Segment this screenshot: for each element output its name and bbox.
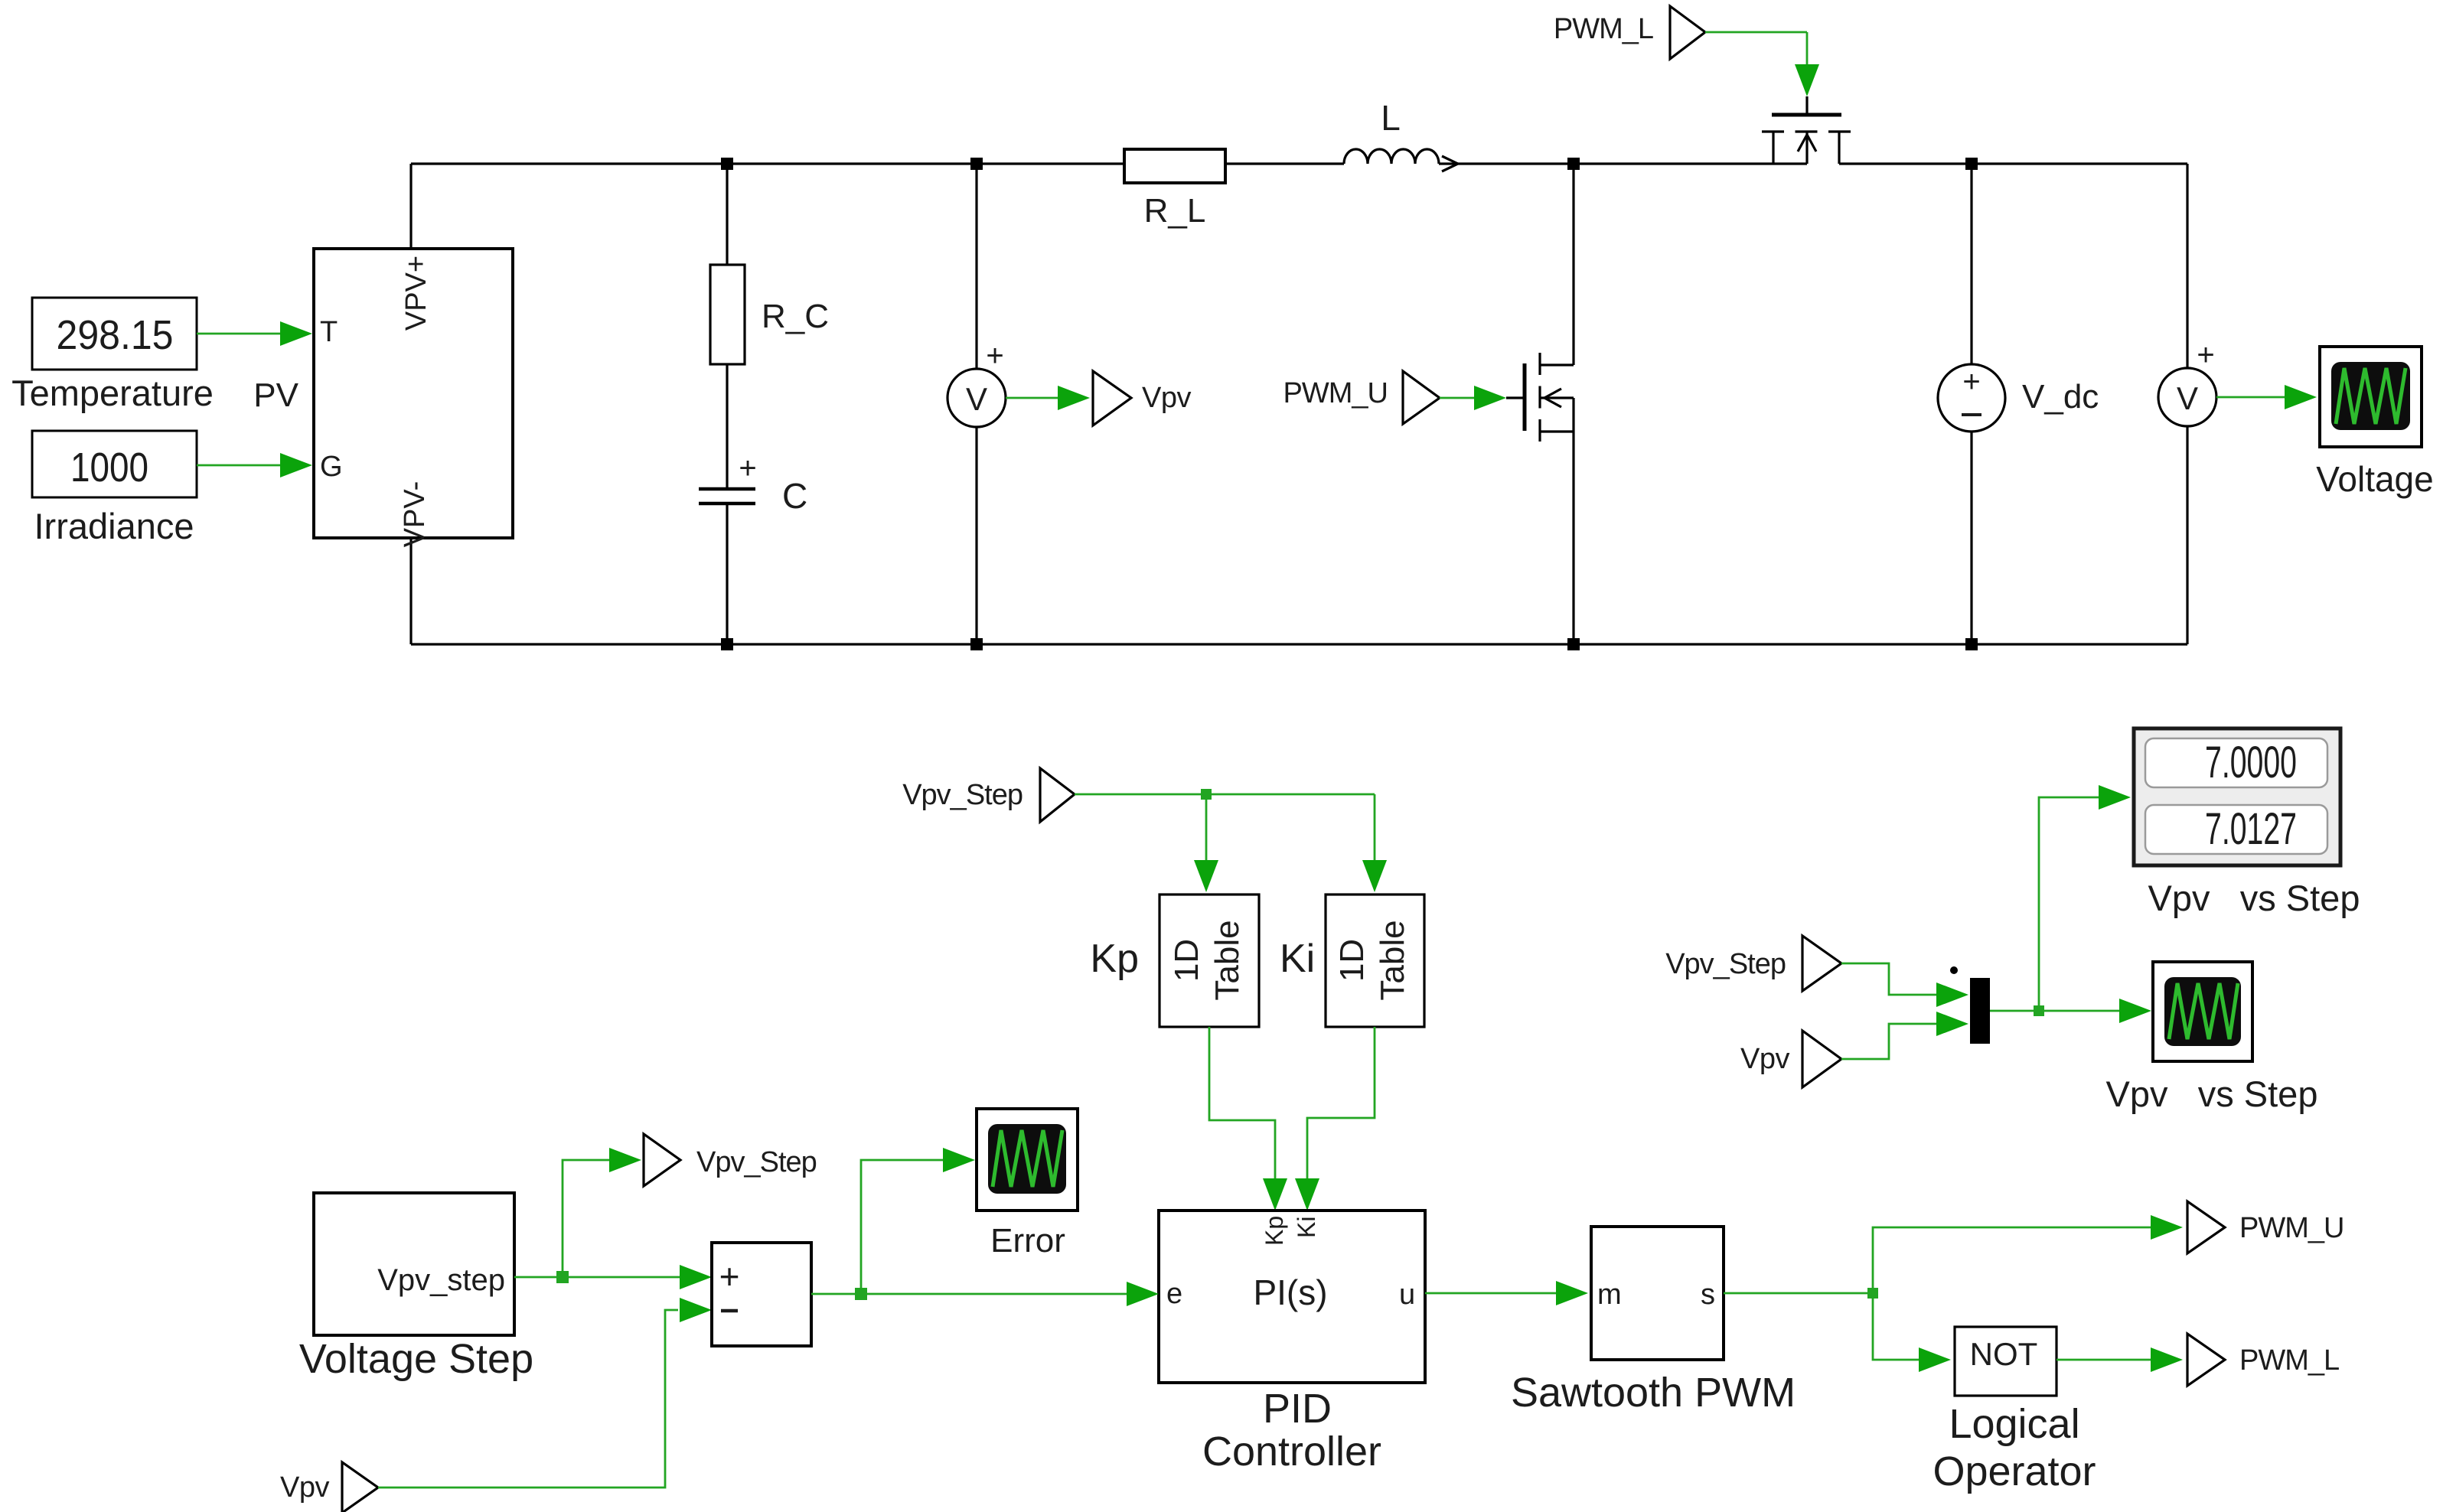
svg-text:+: + bbox=[1962, 365, 1980, 399]
svg-text:Vpv: Vpv bbox=[280, 1471, 329, 1504]
svg-text:u: u bbox=[1399, 1279, 1415, 1311]
wire R_C to C bbox=[726, 364, 728, 489]
sum block bbox=[712, 1243, 811, 1346]
from tag PWM_U bbox=[1403, 371, 1440, 424]
svg-text:R_L: R_L bbox=[1144, 192, 1206, 230]
wire top bus mid segment (after inductor to upper MOSFET mid stub) bbox=[1439, 162, 1807, 165]
goto tag Vpv_Step bbox=[644, 1134, 680, 1186]
svg-text:+: + bbox=[986, 339, 1003, 373]
svg-text:PWM_L: PWM_L bbox=[1554, 13, 1653, 45]
svg-text:+: + bbox=[2197, 338, 2214, 372]
constant Temperature 298.15 bbox=[32, 298, 197, 370]
svg-text:Kp: Kp bbox=[1090, 937, 1139, 981]
wire to display bbox=[2039, 797, 2099, 1011]
resistor R_C bbox=[710, 265, 745, 364]
svg-text:Voltage Step: Voltage Step bbox=[299, 1336, 533, 1382]
wire PV+ to top bus bbox=[409, 164, 412, 249]
wire Voltage Step to sum bbox=[514, 1276, 680, 1279]
svg-text:Ki: Ki bbox=[1293, 1217, 1320, 1238]
transistor lower MOSFET (PWM_U) bbox=[1506, 164, 1574, 644]
svg-text:PV: PV bbox=[253, 376, 298, 414]
svg-text:Vpv_Step: Vpv_Step bbox=[1665, 948, 1786, 980]
svg-text:1000: 1000 bbox=[70, 445, 148, 490]
node (bottom bus / V sensor branch) bbox=[970, 638, 983, 650]
svg-text:Kp: Kp bbox=[1261, 1216, 1288, 1246]
capacitor C bbox=[699, 451, 757, 503]
node (top bus / V sensor branch) bbox=[970, 158, 983, 170]
goto tag PWM_U bbox=[2187, 1201, 2225, 1253]
svg-text:298.15: 298.15 bbox=[57, 312, 174, 358]
svg-text:V: V bbox=[2177, 380, 2198, 416]
svg-text:VPV-: VPV- bbox=[399, 481, 431, 548]
wire PV- to bottom bus bbox=[409, 538, 412, 644]
svg-text:Vpv: Vpv bbox=[1142, 382, 1191, 414]
svg-text:7.0127: 7.0127 bbox=[2205, 804, 2297, 854]
from tag Vpv_Step (tables) bbox=[1040, 768, 1075, 822]
wire PWM_L gate signal bbox=[1705, 32, 1807, 67]
transistor upper MOSFET (PWM_L) bbox=[1762, 96, 1851, 164]
wire V sensor branch bottom bbox=[975, 427, 977, 644]
svg-text:VPV+: VPV+ bbox=[400, 256, 432, 331]
junction (PWM split) bbox=[1867, 1288, 1878, 1299]
svg-text:Table: Table bbox=[1208, 920, 1246, 1000]
logical operator NOT bbox=[1955, 1327, 2056, 1396]
svg-text:PWM_U: PWM_U bbox=[2239, 1212, 2344, 1244]
wire to goto Vpv_Step bbox=[563, 1160, 609, 1277]
scope Voltage bbox=[2320, 347, 2422, 447]
node (bottom bus / C branch) bbox=[721, 638, 733, 650]
svg-text:L: L bbox=[1381, 98, 1401, 138]
svg-text:PWM_L: PWM_L bbox=[2239, 1344, 2339, 1377]
wire C to bottom bus bbox=[726, 503, 728, 644]
from tag PWM_L bbox=[1670, 6, 1705, 59]
wire G signal bbox=[197, 464, 282, 467]
svg-text:Ki: Ki bbox=[1280, 937, 1315, 981]
node (bottom bus / V_dc branch) bbox=[1965, 638, 1978, 650]
mux bbox=[1970, 978, 1990, 1044]
wire V sensor branch top bbox=[975, 164, 977, 369]
svg-text:m: m bbox=[1597, 1279, 1622, 1311]
svg-text:PI(s): PI(s) bbox=[1253, 1272, 1327, 1312]
goto tag Vpv bbox=[1093, 371, 1131, 425]
wire to NOT bbox=[1873, 1293, 1919, 1360]
junction (Voltage Step split) bbox=[556, 1271, 569, 1283]
svg-text:Vpv_Step: Vpv_Step bbox=[902, 779, 1023, 811]
wire to Vpv vs Step scope bbox=[2039, 1010, 2119, 1012]
wire bottom bus bbox=[411, 643, 2187, 645]
svg-text:1D: 1D bbox=[1333, 939, 1371, 982]
svg-text:+: + bbox=[739, 451, 756, 485]
wire Vpv to sum minus bbox=[378, 1310, 678, 1488]
svg-text:PWM_U: PWM_U bbox=[1283, 377, 1388, 409]
voltage sensor V (left) bbox=[948, 339, 1006, 427]
wire V_dc bottom bbox=[1970, 432, 1972, 644]
svg-text:V_dc: V_dc bbox=[2022, 378, 2099, 415]
constant Irradiance 1000 bbox=[32, 431, 197, 497]
wire s output bbox=[1724, 1292, 1873, 1295]
display Vpv vs Step bbox=[2134, 728, 2340, 865]
svg-text:Vpv_step: Vpv_step bbox=[377, 1263, 505, 1297]
wire Ki table to PID bbox=[1307, 1027, 1375, 1178]
lookup table Ki 1D Table bbox=[1326, 894, 1424, 1027]
svg-text:Sawtooth PWM: Sawtooth PWM bbox=[1511, 1370, 1796, 1416]
svg-text:Vpv_Step: Vpv_Step bbox=[696, 1146, 817, 1178]
PID controller block bbox=[1159, 1211, 1425, 1383]
svg-text:Voltage: Voltage bbox=[2316, 459, 2433, 499]
wire Voltage scope signal bbox=[2216, 396, 2285, 399]
node A (top bus / R_C branch) bbox=[721, 158, 733, 170]
wire PID u to Sawtooth m bbox=[1425, 1292, 1556, 1295]
wire V sensor right branch bottom bbox=[2186, 426, 2188, 644]
wire PWM_U gate signal bbox=[1440, 397, 1477, 399]
wire Vpv sensor signal bbox=[1006, 397, 1059, 399]
svg-text:T: T bbox=[320, 316, 338, 348]
wire NOT to goto PWM_L bbox=[2056, 1359, 2151, 1361]
svg-text:NOT: NOT bbox=[1970, 1336, 2038, 1372]
inductor L bbox=[1344, 149, 1458, 171]
svg-text:Error: Error bbox=[990, 1222, 1065, 1259]
wire mux output bbox=[1990, 1010, 2039, 1012]
svg-text:Vpv vs Step: Vpv vs Step bbox=[2106, 1074, 2318, 1114]
wire V sensor right branch top bbox=[2186, 164, 2188, 368]
junction (error split) bbox=[855, 1288, 867, 1300]
wire T signal bbox=[197, 333, 282, 335]
wire Vpv_Step to tables bbox=[1075, 794, 1375, 860]
svg-text:Temperature: Temperature bbox=[11, 373, 214, 413]
junction (mux split) bbox=[2034, 1005, 2044, 1016]
svg-text:7.0000: 7.0000 bbox=[2205, 738, 2297, 787]
wire sum to PID e bbox=[811, 1293, 1127, 1295]
node (bottom bus / lower MOSFET source) bbox=[1567, 638, 1580, 650]
node (top bus / lower MOSFET drain) bbox=[1567, 158, 1580, 170]
svg-text:Vpv vs Step: Vpv vs Step bbox=[2148, 878, 2360, 918]
svg-text:C: C bbox=[782, 476, 807, 516]
from tag Vpv_Step (mux) bbox=[1802, 936, 1841, 991]
svg-text:e: e bbox=[1166, 1278, 1182, 1310]
svg-text:+: + bbox=[719, 1256, 740, 1296]
lookup table Kp 1D Table bbox=[1160, 894, 1259, 1027]
svg-text:Vpv: Vpv bbox=[1740, 1043, 1789, 1075]
wire to Error scope bbox=[861, 1160, 943, 1294]
scope Vpv vs Step bbox=[2153, 962, 2252, 1061]
svg-text:Logical: Logical bbox=[1949, 1401, 2079, 1447]
wire Vpv to mux bbox=[1841, 1024, 1936, 1059]
wire R_C branch top bbox=[726, 164, 728, 265]
svg-text:PID: PID bbox=[1263, 1386, 1332, 1432]
scope Error bbox=[977, 1109, 1078, 1211]
node (top bus / V_dc branch) bbox=[1965, 158, 1978, 170]
wire V_dc top bbox=[1970, 164, 1972, 364]
from tag Vpv (mux) bbox=[1802, 1031, 1841, 1087]
svg-text:1D: 1D bbox=[1168, 939, 1205, 982]
svg-text:V: V bbox=[966, 381, 987, 417]
svg-text:Table: Table bbox=[1374, 920, 1411, 1000]
wire Vpv_Step to mux bbox=[1841, 963, 1936, 995]
from tag Vpv (bottom left) bbox=[342, 1462, 378, 1512]
wire top bus right segment bbox=[1839, 162, 2187, 165]
svg-text:Irradiance: Irradiance bbox=[34, 506, 194, 546]
svg-text:G: G bbox=[320, 451, 343, 483]
svg-text:R_C: R_C bbox=[762, 298, 829, 335]
svg-text:Controller: Controller bbox=[1202, 1429, 1381, 1475]
PV block bbox=[314, 249, 513, 547]
goto tag PWM_L bbox=[2187, 1334, 2225, 1386]
wire Kp table to PID bbox=[1209, 1027, 1275, 1178]
svg-text:s: s bbox=[1701, 1279, 1715, 1311]
wire top bus left segment bbox=[411, 162, 1344, 165]
junction (Vpv_Step split) bbox=[1201, 789, 1212, 800]
resistor R_L bbox=[1124, 149, 1225, 183]
voltage sensor V (right) bbox=[2158, 338, 2216, 426]
source V_dc bbox=[1938, 364, 2005, 432]
subsystem Sawtooth PWM bbox=[1591, 1227, 1724, 1360]
wire to goto PWM_U bbox=[1873, 1227, 2151, 1293]
svg-text:Operator: Operator bbox=[1933, 1448, 2096, 1494]
subsystem Voltage Step bbox=[314, 1193, 514, 1335]
